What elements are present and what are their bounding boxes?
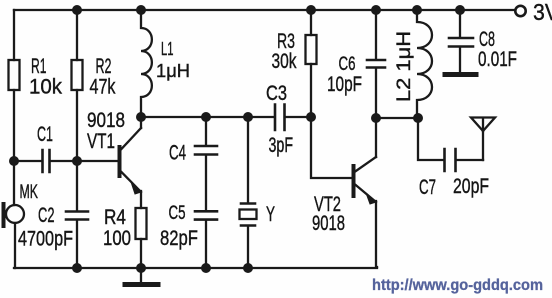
svg-text:C2: C2 [38, 204, 55, 227]
wire VT2 collector up [375, 118, 377, 157]
crystal Y [240, 204, 257, 226]
wire oscillator mid rail [141, 116, 273, 118]
wire R1 bottom to node A [13, 90, 15, 161]
capacitor C5 [195, 211, 217, 268]
ground C8 [445, 72, 476, 77]
node B dot C3 right [306, 112, 316, 122]
node dot VT1 collector [136, 112, 146, 122]
node dot L2 top [412, 5, 422, 15]
svg-text:3V: 3V [533, 0, 552, 25]
resistor R1 [9, 60, 20, 90]
resistor R2 [72, 60, 83, 90]
svg-text:82pF: 82pF [160, 227, 198, 250]
wire top supply rail [14, 9, 514, 11]
wire crystal bottom [247, 227, 249, 268]
wire VT1 emitter down to R4 [140, 191, 142, 208]
node dot Y bottom [243, 263, 253, 273]
svg-text:Y: Y [266, 203, 275, 226]
wire VT1 base [77, 160, 118, 162]
node dot VT1 base [72, 156, 82, 166]
wire bottom ground rail [14, 267, 377, 269]
wire R3 top [310, 10, 312, 35]
svg-text:C7: C7 [419, 176, 436, 199]
capacitor C3 [275, 105, 310, 131]
node dot Y top [243, 112, 253, 122]
svg-text:C3: C3 [266, 82, 287, 105]
svg-text:10k: 10k [29, 76, 62, 99]
svg-text:C5: C5 [169, 202, 186, 224]
resistor R3 [306, 35, 317, 64]
wire R2 bottom to node A [76, 90, 78, 161]
svg-text:C4: C4 [169, 142, 186, 165]
node dot R4 bottom [136, 263, 146, 273]
microphone MK element bar [2, 204, 6, 226]
node dot C4 top [201, 112, 211, 122]
svg-text:0.01F: 0.01F [478, 48, 517, 71]
wire C6 to L2 bottom [376, 117, 418, 119]
svg-text:30k: 30k [272, 50, 297, 73]
capacitor C8 [449, 38, 473, 72]
wire VT1 collector up [140, 117, 142, 128]
inductor L1 [141, 10, 152, 117]
wire MK top [13, 161, 15, 205]
svg-text:C1: C1 [37, 123, 53, 146]
node dot VT2 collector [371, 113, 381, 123]
node dot L2 bottom [413, 113, 423, 123]
wire C8 top [459, 10, 461, 37]
node dot R2 top [72, 5, 82, 15]
svg-text:http://www.go-gddq.com: http://www.go-gddq.com [372, 277, 543, 294]
node dot C8 top [455, 5, 465, 15]
svg-text:VT1: VT1 [87, 130, 115, 153]
wire VT2 base [311, 117, 352, 178]
inductor L2 [417, 10, 432, 118]
wire crystal top [247, 117, 249, 202]
wire MK bottom [14, 223, 16, 268]
transistor VT2 [354, 157, 377, 204]
resistor R4 [136, 208, 147, 239]
capacitor C1 [14, 150, 77, 172]
svg-text:100: 100 [103, 227, 131, 250]
capacitor C7 [445, 149, 484, 171]
node dot C5 bottom [201, 263, 211, 273]
svg-text:10pF: 10pF [327, 73, 362, 96]
node dot L1 top [136, 5, 146, 15]
svg-text:47k: 47k [90, 76, 116, 99]
svg-text:MK: MK [20, 181, 39, 203]
microphone MK [6, 205, 24, 223]
wire antenna feed [482, 131, 484, 160]
svg-text:4700pF: 4700pF [18, 228, 73, 251]
node dot C2 bottom [72, 263, 82, 273]
antenna [471, 118, 495, 132]
wire left rail R1 top [13, 10, 15, 60]
node dot C6 top [371, 5, 381, 15]
svg-text:9018: 9018 [312, 212, 345, 235]
transistor VT1 [120, 128, 142, 194]
svg-text:1μH: 1μH [156, 60, 190, 81]
wire R4 bottom [140, 239, 142, 268]
capacitor C2 [66, 161, 88, 268]
wire VT2 emitter down [376, 201, 377, 267]
svg-text:L1: L1 [161, 38, 174, 59]
svg-text:C6: C6 [339, 53, 356, 75]
capacitor C6 [367, 10, 385, 118]
wire L2 bottom to C7 [418, 118, 443, 160]
svg-text:20pF: 20pF [453, 175, 489, 198]
node dot R3 top [306, 5, 316, 15]
svg-text:L2 1μH: L2 1μH [394, 31, 415, 102]
capacitor C4 [195, 117, 217, 210]
node A dot C1 left [9, 156, 19, 166]
svg-text:9018: 9018 [87, 109, 125, 132]
wire R3 bottom to node B [310, 64, 312, 117]
svg-text:R4: R4 [104, 206, 126, 229]
svg-text:3pF: 3pF [269, 134, 294, 157]
terminal 3V [515, 6, 525, 16]
ground main [125, 268, 158, 285]
wire R2 top [76, 10, 78, 60]
